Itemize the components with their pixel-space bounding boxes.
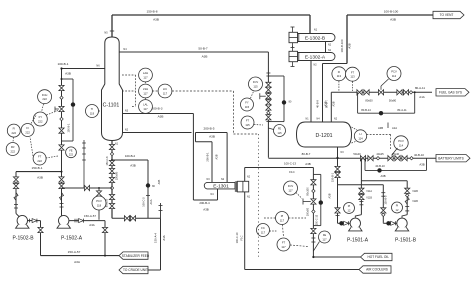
- valve PCV-118 body: [96, 191, 101, 196]
- svg-text:P-1501-B: P-1501-B: [395, 238, 417, 244]
- svg-text:117: 117: [163, 91, 168, 95]
- nozzle N1 of C-1101 bottoms: [111, 141, 113, 219]
- exchanger E-1302-B: [298, 34, 336, 42]
- svg-text:114: 114: [358, 136, 363, 140]
- wire FT to line dashed: [290, 245, 308, 247]
- svg-text:A3B: A3B: [65, 72, 71, 76]
- svg-text:LI: LI: [359, 132, 361, 136]
- svg-text:A3B: A3B: [215, 154, 219, 159]
- svg-text:PI: PI: [348, 204, 351, 208]
- svg-text:FR: FR: [11, 145, 15, 149]
- svg-text:AIR COOLERS: AIR COOLERS: [366, 268, 388, 272]
- svg-text:FY: FY: [39, 115, 43, 119]
- svg-text:P-1502-A: P-1502-A: [61, 236, 83, 242]
- svg-text:A3B: A3B: [390, 18, 396, 22]
- svg-text:FCH: FCH: [42, 93, 48, 97]
- reducer BL 2: [410, 157, 413, 160]
- wire pump suction branch: [360, 158, 362, 215]
- svg-text:150-B-8: 150-B-8: [146, 9, 157, 13]
- svg-text:40-B-10: 40-B-10: [414, 153, 424, 157]
- control valve FCV-117 body: [311, 199, 316, 204]
- svg-text:LIC: LIC: [163, 87, 167, 91]
- wire level tap signals dashed: [122, 74, 136, 76]
- svg-text:FC: FC: [261, 226, 265, 230]
- svg-text:150-B-1: 150-B-1: [31, 166, 42, 170]
- wire TI-119 tap dashed: [99, 110, 103, 112]
- svg-text:100-B-2: 100-B-2: [125, 154, 136, 158]
- wire PI dashes: [264, 217, 276, 219]
- reducer BL: [376, 157, 379, 160]
- svg-text:117: 117: [288, 188, 293, 192]
- valve gate bottoms 4: [109, 177, 114, 182]
- wire suction A elbow: [355, 215, 361, 218]
- svg-text:FI: FI: [13, 127, 16, 131]
- wire FY to valve dashed: [47, 111, 59, 116]
- svg-text:113: 113: [337, 74, 342, 78]
- svg-text:80-A-11: 80-A-11: [415, 86, 425, 90]
- svg-text:115: 115: [245, 105, 250, 109]
- valve gate bottoms 3: [109, 168, 114, 173]
- reducer FCV115 station: [267, 111, 270, 114]
- valve gate suction B: [13, 177, 18, 182]
- wire fuel gas line 80-A-11: [331, 91, 432, 93]
- svg-text:FI: FI: [338, 70, 341, 74]
- instrument LI-114: [354, 130, 366, 142]
- svg-text:200-B-1: 200-B-1: [206, 152, 210, 162]
- svg-text:FI: FI: [26, 126, 29, 130]
- nozzle N2 of C-1101 line 200-B-5: [123, 132, 192, 134]
- valve gate bottoms 1: [109, 144, 114, 149]
- svg-text:117: 117: [143, 91, 148, 95]
- instrument FCH-222: [38, 90, 52, 104]
- pump P-1502-B: [17, 215, 27, 225]
- svg-text:FT: FT: [282, 241, 286, 245]
- nozzle N4 D-1201 vent riser: [322, 64, 324, 123]
- wire E-1302-B N2 to E-1302-A N1: [325, 42, 327, 53]
- svg-text:100-C-13: 100-C-13: [284, 162, 296, 166]
- off-page connector AIR COOLERS: [359, 266, 391, 273]
- svg-text:80-B-7: 80-B-7: [302, 152, 311, 156]
- wire FCV-117 bypass: [313, 173, 320, 175]
- reducer: [60, 117, 63, 120]
- reducer 100x80: [312, 210, 315, 213]
- wire overhead vapour line 150-B-8 from C-1101 N5 to E-1302-B: [112, 14, 310, 16]
- svg-text:150-B-1: 150-B-1: [330, 172, 334, 182]
- svg-text:150-A-57: 150-A-57: [68, 250, 81, 254]
- wire PCV-118 drop: [98, 188, 100, 220]
- valve gate FCV115 station 2: [266, 87, 271, 92]
- svg-text:100-C-5: 100-C-5: [141, 197, 145, 207]
- wire LCV stem: [392, 148, 398, 155]
- off-page connector TO VENT: [433, 11, 464, 18]
- svg-text:100-B-1: 100-B-1: [67, 123, 70, 133]
- svg-text:PCV: PCV: [398, 139, 404, 143]
- channel stub E-1302-A top: [292, 46, 294, 51]
- svg-text:117: 117: [280, 218, 285, 222]
- svg-text:113: 113: [350, 75, 355, 79]
- svg-text:50x40: 50x40: [353, 152, 361, 156]
- valve gate N3 riser 2: [335, 172, 340, 177]
- wire 100-C-13 line to FCV-117 station: [245, 167, 314, 169]
- valve gate BL 1: [360, 156, 365, 161]
- svg-text:FY: FY: [245, 101, 249, 105]
- wire 40-B-10 bypass: [364, 158, 366, 170]
- wire discharge riser B: [382, 185, 384, 223]
- wire LI to LCV signal dashed: [367, 133, 391, 135]
- wire 200-B-5 corner to E-1301 N2: [226, 133, 228, 183]
- wire E-1301 N3 riser: [211, 142, 213, 183]
- control valve PCV-112 body: [378, 90, 383, 95]
- instrument FT-222: [33, 152, 46, 165]
- wire to crude unit line: [148, 269, 161, 271]
- nozzle N2 D-1201 gas riser 80-B-7: [330, 92, 332, 122]
- svg-text:115: 115: [245, 123, 250, 127]
- instrument FCV-117: [284, 181, 298, 195]
- wire suction header to P-1502 pumps: [16, 171, 62, 173]
- wire FC to FT dashed: [270, 230, 278, 232]
- wire vent header 100-B-100 to vent: [347, 14, 433, 16]
- wire 200-B-4 bottom run to E-1301 N4: [193, 199, 217, 201]
- node N5: [110, 30, 114, 32]
- svg-text:222: 222: [69, 154, 74, 157]
- nozzle N4 of C-1101: [119, 51, 268, 53]
- valve gate bottoms run a: [124, 216, 129, 221]
- svg-text:A3B: A3B: [203, 208, 209, 212]
- valve globe bypass closed: [71, 102, 75, 106]
- svg-text:80-B-7: 80-B-7: [325, 100, 329, 108]
- wire level taps dashed: [352, 127, 358, 130]
- svg-text:119: 119: [90, 111, 95, 115]
- wire 80-B-7 line from station to battery limits: [268, 157, 436, 159]
- wire discharge P-1502-A: [69, 220, 105, 222]
- column C-1101: [102, 37, 123, 141]
- valve globe discharge A: [339, 221, 343, 225]
- wire LSH to LAL dashed: [145, 98, 147, 100]
- svg-text:FE: FE: [69, 149, 73, 152]
- instrument PCV-112: [387, 67, 401, 81]
- valve gate suction A V11A: [359, 188, 364, 193]
- wire FCV dashes: [296, 193, 302, 199]
- control valve FCV-222 body: [59, 106, 64, 111]
- check valve discharge A: [344, 221, 349, 225]
- valve gate FCV115 station top: [266, 82, 271, 87]
- reducer bottoms 2: [110, 186, 113, 189]
- wire discharge pump A: [338, 222, 350, 224]
- svg-text:A1A: A1A: [149, 199, 153, 204]
- instrument FT-117: [277, 238, 290, 251]
- valve gate bottoms 2: [109, 160, 114, 165]
- svg-text:A3B: A3B: [332, 101, 336, 106]
- control valve LCV-114 body: [388, 156, 393, 161]
- valve gate BL 2: [368, 156, 373, 161]
- wire LIC-117 cascade signal dashed: [172, 90, 234, 92]
- svg-text:A1A: A1A: [162, 235, 166, 240]
- pump P-1502-A: [59, 215, 69, 225]
- valve gate station top: [59, 85, 64, 90]
- svg-text:40-B-10: 40-B-10: [375, 164, 385, 168]
- svg-text:E-1301: E-1301: [213, 184, 229, 190]
- flange suction A: [359, 201, 363, 203]
- svg-text:PI: PI: [396, 204, 399, 208]
- valve globe PCV-112 bypass closed: [379, 111, 383, 115]
- svg-text:A3B: A3B: [328, 193, 332, 198]
- wire E-1302-A N2 down to D-1201 N1: [310, 61, 312, 123]
- svg-text:FCV: FCV: [288, 184, 294, 188]
- valve gate FCV115 station 5: [266, 115, 271, 120]
- svg-text:A3B: A3B: [37, 175, 43, 179]
- flange riser B: [381, 192, 385, 194]
- pump P-1501-A: [350, 218, 360, 228]
- valve gate spillback: [84, 185, 89, 190]
- flange FCV117 station: [311, 237, 315, 239]
- instrument FCV-115: [249, 77, 263, 91]
- wire bypass around FCV-222: [62, 78, 74, 80]
- svg-text:FUEL GAS SYS: FUEL GAS SYS: [439, 91, 462, 95]
- wire drain stub with flanges: [83, 140, 85, 188]
- svg-text:V11B: V11B: [366, 197, 372, 200]
- svg-text:FT: FT: [351, 70, 355, 74]
- svg-text:222: 222: [10, 149, 15, 153]
- wire discharge P-1502-B: [28, 220, 41, 222]
- nozzle N3 of C-1101 line 200-B-3: [123, 113, 194, 115]
- svg-text:222: 222: [37, 159, 42, 163]
- flange station top: [266, 72, 270, 74]
- junction D-1201 bottoms: [336, 157, 338, 159]
- svg-text:112: 112: [392, 74, 397, 78]
- wire 50-B-7 riser down to 80-B-7: [267, 52, 269, 158]
- wire PCV-112 bypass 80-B-14: [357, 92, 359, 113]
- orifice FE-115: [274, 125, 286, 137]
- instrument FI-113: [332, 67, 346, 81]
- valve gate discharge B: [38, 227, 43, 232]
- channel stub E-1302-B bottom: [292, 43, 294, 48]
- valve gate fuel gas 3: [397, 90, 402, 95]
- flange suction B: [14, 204, 18, 206]
- svg-text:40x25: 40x25: [376, 152, 384, 156]
- wire 100-B-1 riser down from N6 line: [61, 69, 63, 172]
- svg-text:100-C-13: 100-C-13: [316, 214, 319, 225]
- flange suction B: [405, 205, 409, 207]
- valve gate suction A 2: [59, 183, 64, 188]
- instrument FY-115: [241, 98, 254, 111]
- valve gate FCV117 station top: [311, 180, 316, 185]
- svg-text:FE: FE: [278, 127, 282, 131]
- svg-text:100x80: 100x80: [307, 207, 310, 216]
- wire FI to FR dashed: [12, 137, 15, 142]
- svg-text:A1A: A1A: [392, 126, 397, 130]
- reducer 80x100: [312, 189, 315, 192]
- wire suction header: [361, 180, 407, 182]
- pump P-1501-B: [397, 218, 407, 228]
- svg-text:P-1501-A: P-1501-A: [347, 238, 369, 244]
- svg-text:A3B: A3B: [378, 126, 383, 130]
- svg-text:115: 115: [253, 84, 258, 88]
- wire FE-115 leader: [268, 128, 273, 130]
- valve gate fuel gas 2: [364, 90, 369, 95]
- svg-text:F1C: F1C: [289, 170, 294, 174]
- svg-text:150-B-2: 150-B-2: [384, 195, 388, 205]
- svg-text:200-B-4: 200-B-4: [199, 201, 210, 205]
- wire PCV-112 stem: [380, 86, 382, 90]
- svg-text:A3B: A3B: [380, 174, 385, 178]
- svg-text:25x40: 25x40: [392, 152, 400, 156]
- valve globe FCV117 bypass closed: [319, 200, 323, 204]
- wire product header 150-A-57: [41, 255, 120, 257]
- svg-text:A3B: A3B: [158, 179, 161, 184]
- nozzle N3 D-1201 bottoms: [337, 147, 339, 223]
- wire spillback line: [62, 187, 113, 189]
- off-page connector TO CRUDE UNIT: [119, 266, 148, 273]
- svg-text:A3A: A3A: [74, 260, 81, 264]
- line break suction A: [60, 193, 64, 201]
- valve globe FCV115 bypass closed: [282, 100, 286, 104]
- off-page connector HOT FUEL OIL: [361, 253, 393, 260]
- instrument FT-115: [241, 116, 254, 129]
- svg-text:222: 222: [25, 130, 30, 134]
- svg-text:150-C-6: 150-C-6: [106, 156, 109, 166]
- flange discharge riser A: [336, 215, 340, 217]
- valve gate bottoms 5: [109, 194, 114, 199]
- wire hot fuel oil run: [313, 256, 360, 258]
- svg-text:A3B: A3B: [419, 162, 424, 166]
- wire FCH to FY dashed: [42, 104, 44, 112]
- svg-text:P-1502-B: P-1502-B: [12, 236, 34, 242]
- svg-text:A3B: A3B: [348, 43, 352, 48]
- svg-text:PI: PI: [281, 214, 284, 218]
- svg-text:TO CRUDE UNIT: TO CRUDE UNIT: [123, 268, 148, 272]
- valve gate N3 riser 1: [335, 166, 340, 171]
- flange station bottom: [266, 121, 270, 123]
- svg-text:115: 115: [277, 131, 282, 135]
- wire 200-B-3 riser down: [192, 114, 194, 201]
- wire suction drop P-1502-B: [15, 172, 17, 214]
- svg-text:FT: FT: [38, 155, 42, 159]
- exchanger E-1302-A: [298, 53, 336, 61]
- svg-text:LSH: LSH: [143, 87, 148, 91]
- flange suction A: [60, 203, 64, 205]
- wire branch 100-B-2: [112, 159, 148, 161]
- control valve FCV-115 body: [266, 94, 271, 99]
- wire FT to FI dashed: [30, 137, 33, 156]
- svg-text:V11B: V11B: [412, 190, 418, 193]
- svg-text:BATTERY LIMITS: BATTERY LIMITS: [438, 156, 464, 160]
- valve gate bottoms run b: [130, 216, 135, 221]
- svg-text:50-B-7: 50-B-7: [198, 47, 208, 51]
- valve gate FCV115 station 4: [266, 105, 271, 110]
- valve gate BL 4: [402, 156, 407, 161]
- svg-text:C-1101: C-1101: [103, 103, 120, 109]
- svg-text:117: 117: [281, 245, 286, 249]
- valve gate discharge riser A: [335, 208, 340, 213]
- instrument PI-117: [276, 212, 289, 225]
- valve globe discharge B: [386, 221, 390, 225]
- orifice FE-117: [319, 231, 331, 243]
- check valve discharge B: [32, 219, 37, 223]
- valve gate: [59, 128, 64, 133]
- instrument FT-113: [346, 67, 360, 81]
- instrument PI-12 pump B: [392, 202, 403, 213]
- svg-text:TI: TI: [91, 107, 94, 111]
- svg-text:150-A-4: 150-A-4: [154, 233, 158, 243]
- svg-text:E-1302-B: E-1302-B: [305, 35, 325, 41]
- valve gate fuel gas 1: [357, 90, 362, 95]
- svg-text:118: 118: [97, 203, 102, 207]
- svg-text:100-B-1: 100-B-1: [57, 62, 68, 66]
- valve gate: [59, 145, 64, 150]
- instrument TI-119: [86, 105, 99, 118]
- svg-text:PCV: PCV: [96, 199, 102, 203]
- instrument LCV-114: [394, 136, 408, 150]
- svg-text:117: 117: [261, 230, 266, 234]
- wire suction drop P-1502-A: [61, 172, 63, 216]
- wire signal dashed vertical: [258, 134, 260, 258]
- svg-text:A3B: A3B: [209, 135, 215, 139]
- svg-text:E-1302-A: E-1302-A: [305, 54, 326, 60]
- valve gate FCV117 station bottom: [311, 228, 316, 233]
- wire suction B elbow: [402, 215, 407, 218]
- wire discharge header: [338, 184, 384, 186]
- wire FI-b to FY dashed: [31, 116, 36, 124]
- svg-text:A3B: A3B: [305, 162, 311, 166]
- svg-text:222: 222: [42, 97, 47, 101]
- svg-text:FE: FE: [323, 233, 327, 237]
- wire 100-C-13 drop: [312, 168, 314, 258]
- valve globe 100-B-2 closed: [146, 183, 150, 187]
- nozzle N2 channel E-1301: [244, 168, 246, 182]
- wire LAH to LSH dashed: [145, 82, 147, 84]
- instrument LIC-117: [158, 84, 172, 98]
- valve gate suction B V11B: [405, 188, 410, 193]
- svg-text:A3A: A3A: [89, 223, 95, 227]
- svg-text:100-B-100: 100-B-100: [340, 39, 344, 53]
- svg-text:150x80: 150x80: [115, 171, 119, 180]
- svg-text:117: 117: [143, 75, 148, 79]
- wire FE leader: [313, 242, 319, 252]
- svg-text:D-1201: D-1201: [315, 133, 332, 139]
- valve gate suction A 2: [359, 194, 364, 199]
- exchanger E-1301: [204, 182, 235, 189]
- instrument PI-12 pump A: [344, 203, 355, 214]
- svg-text:80x50: 80x50: [365, 99, 373, 103]
- svg-text:F1C: F1C: [240, 235, 244, 240]
- valve gate suction B 2: [13, 183, 18, 188]
- wire bypass FCV-115: [268, 75, 284, 77]
- instrument LSH-117: [139, 84, 153, 98]
- wire discharge B riser down: [40, 221, 42, 256]
- spec break stub: [160, 203, 162, 218]
- wire FT to line dashed: [46, 156, 58, 158]
- valve gate bottoms 6: [109, 203, 114, 208]
- svg-text:150-A-57: 150-A-57: [84, 214, 96, 218]
- wire FI FT taps dashed: [338, 81, 340, 91]
- wire air coolers bottom line: [245, 269, 359, 271]
- svg-text:117: 117: [143, 107, 148, 111]
- svg-text:LAL: LAL: [143, 103, 148, 107]
- vessel D-1201: [297, 122, 352, 147]
- check valve discharge A: [79, 219, 84, 223]
- line break suction B: [405, 196, 409, 204]
- nozzle N6 of C-1101 feed line 100-B-1: [62, 68, 105, 70]
- nozzle N1 channel E-1301: [244, 192, 246, 270]
- wire FY dashes: [251, 92, 254, 99]
- svg-text:50x80: 50x80: [389, 99, 397, 103]
- svg-text:80-A-11: 80-A-11: [397, 108, 407, 112]
- orifice FE-222: [66, 147, 77, 158]
- valve gate discharge A: [102, 227, 107, 232]
- wire bottoms run to crude riser: [112, 217, 161, 219]
- valve gate FCV115 station 3: [266, 100, 271, 105]
- svg-text:200-B-3: 200-B-3: [151, 106, 162, 110]
